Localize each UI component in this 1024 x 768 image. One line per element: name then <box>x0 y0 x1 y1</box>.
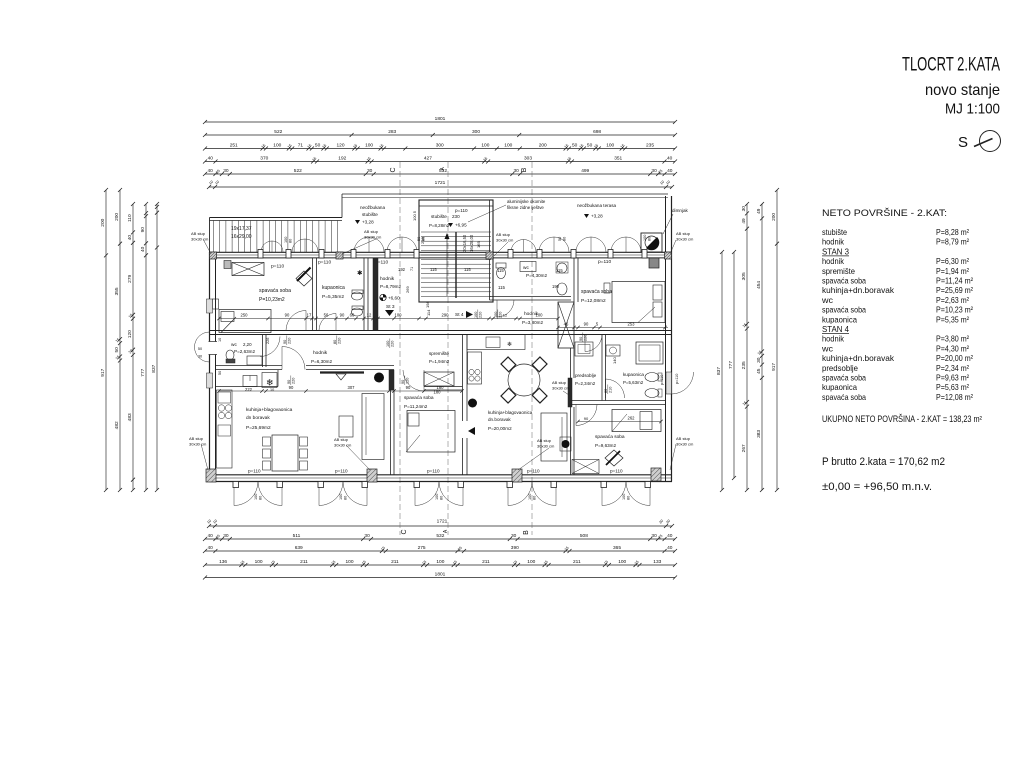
wall kitchen-bedroom solid <box>389 370 394 390</box>
svg-text:+6,95: +6,95 <box>455 223 467 228</box>
svg-text:49: 49 <box>741 218 747 224</box>
svg-text:hodnik: hodnik <box>380 276 395 282</box>
svg-text:210: 210 <box>609 387 613 393</box>
svg-text:dimnjak: dimnjak <box>672 208 689 213</box>
svg-text:300: 300 <box>436 143 444 149</box>
svg-text:P=9,63 m²: P=9,63 m² <box>936 373 969 383</box>
svg-text:508: 508 <box>580 533 588 539</box>
svg-text:100: 100 <box>481 143 489 149</box>
svg-text:B: B <box>523 530 530 535</box>
svg-text:p=110: p=110 <box>527 469 540 474</box>
svg-text:30x30 cm: 30x30 cm <box>496 238 514 243</box>
svg-text:454: 454 <box>756 281 762 289</box>
axis C dashed x400 <box>399 162 401 535</box>
svg-text:AB stup: AB stup <box>364 229 379 234</box>
axis B dashed x532 <box>531 162 533 535</box>
wall wc st4 / stair east <box>489 200 491 300</box>
svg-text:fiksne zidne lještve: fiksne zidne lještve <box>507 205 544 210</box>
svg-text:spremište: spremište <box>429 351 449 356</box>
AB column top-left <box>210 252 217 259</box>
balcony door arcs bottom <box>234 482 258 506</box>
svg-text:P=11,24m2: P=11,24m2 <box>404 404 428 409</box>
wc st3 fixtures <box>226 350 234 360</box>
svg-text:30: 30 <box>651 533 657 539</box>
left dim 837 <box>156 204 158 490</box>
svg-text:250: 250 <box>241 313 249 318</box>
svg-text:p=110: p=110 <box>427 469 440 474</box>
svg-text:novo stanje: novo stanje <box>925 82 1000 99</box>
dim 262 bedroom963 <box>578 421 661 423</box>
svg-text:483: 483 <box>127 413 133 421</box>
svg-text:30x30 cm: 30x30 cm <box>537 444 555 449</box>
svg-text:80: 80 <box>604 389 608 393</box>
svg-text:115: 115 <box>498 285 506 290</box>
svg-text:30: 30 <box>223 533 229 539</box>
svg-text:100 5: 100 5 <box>412 210 417 221</box>
svg-text:spavaća soba: spavaća soba <box>822 392 866 402</box>
spremiste closet X <box>424 372 454 386</box>
svg-text:wc: wc <box>231 343 237 348</box>
svg-text:±0,00 = +96,50 m.n.v.: ±0,00 = +96,50 m.n.v. <box>822 481 932 493</box>
AB column bottom st4 <box>512 469 522 482</box>
svg-text:71: 71 <box>298 143 304 149</box>
svg-text:p=110: p=110 <box>660 375 664 385</box>
svg-text:P=2,34m2: P=2,34m2 <box>575 381 596 386</box>
svg-text:100: 100 <box>435 494 439 500</box>
AB column top mid <box>336 252 343 259</box>
svg-text:17: 17 <box>307 313 312 318</box>
svg-text:P=10,23 m²: P=10,23 m² <box>936 305 973 315</box>
diamond st4 <box>605 450 623 466</box>
chimney dimnjak <box>641 233 662 252</box>
svg-text:AB stup: AB stup <box>334 437 349 442</box>
svg-text:hodnik: hodnik <box>822 237 845 247</box>
svg-text:90: 90 <box>289 385 294 390</box>
svg-text:30: 30 <box>198 355 202 359</box>
svg-text:90: 90 <box>287 380 291 384</box>
svg-text:P=3,80m2: P=3,80m2 <box>522 320 544 325</box>
svg-text:220: 220 <box>288 338 292 344</box>
svg-text:spavaća soba: spavaća soba <box>581 289 612 295</box>
svg-text:UKUPNO NETO POVRŠINA - 2.KAT =: UKUPNO NETO POVRŠINA - 2.KAT = 138,23 m² <box>822 414 982 424</box>
svg-text:100: 100 <box>536 313 544 318</box>
svg-text:p=110: p=110 <box>675 374 679 384</box>
svg-text:279: 279 <box>127 274 133 282</box>
svg-text:spavaća soba: spavaća soba <box>822 373 866 383</box>
svg-text:hodnik: hodnik <box>822 334 845 344</box>
svg-text:511: 511 <box>293 533 301 539</box>
svg-text:P=5,63m2: P=5,63m2 <box>623 380 644 385</box>
svg-text:80: 80 <box>563 237 567 241</box>
svg-text:100: 100 <box>345 559 353 565</box>
svg-text:230: 230 <box>452 214 460 219</box>
svg-text:390: 390 <box>511 545 519 551</box>
left dim 200-917 <box>105 190 107 490</box>
niche wall <box>216 386 278 388</box>
svg-text:p=110: p=110 <box>610 469 623 474</box>
svg-text:300: 300 <box>472 129 480 135</box>
svg-text:wc: wc <box>821 295 834 305</box>
svg-text:917: 917 <box>100 368 106 376</box>
svg-text:253: 253 <box>628 322 636 327</box>
wall exterior left <box>209 252 211 482</box>
svg-text:220: 220 <box>406 378 410 384</box>
svg-text:wc: wc <box>821 343 834 353</box>
svg-text:AB stup: AB stup <box>496 232 511 237</box>
svg-text:30x30 cm: 30x30 cm <box>364 235 382 240</box>
stair divider <box>455 232 457 298</box>
svg-text:P=8,28m2: P=8,28m2 <box>429 223 450 228</box>
svg-text:P=20,00 m²: P=20,00 m² <box>936 353 973 363</box>
svg-text:917: 917 <box>771 363 777 371</box>
right wall window swing arc <box>672 372 694 394</box>
svg-text:115: 115 <box>497 268 504 273</box>
wall solid hodnik west <box>373 258 378 331</box>
svg-text:30: 30 <box>367 168 373 174</box>
svg-text:100: 100 <box>527 559 535 565</box>
right wall window <box>666 372 672 394</box>
svg-text:90: 90 <box>285 313 290 318</box>
svg-text:B: B <box>521 167 528 172</box>
wall top window band <box>210 251 673 253</box>
svg-text:kuhinja+dn.boravak: kuhinja+dn.boravak <box>822 353 895 363</box>
svg-text:220: 220 <box>338 338 342 344</box>
svg-text:100: 100 <box>618 559 626 565</box>
svg-text:aluminijske okomite: aluminijske okomite <box>507 199 546 204</box>
svg-text:133: 133 <box>653 559 661 565</box>
svg-text:AB stup: AB stup <box>676 231 691 236</box>
svg-text:❄: ❄ <box>507 341 512 348</box>
svg-text:100: 100 <box>528 494 532 500</box>
svg-text:100: 100 <box>254 494 258 500</box>
right dim 305-235-267 <box>746 204 748 490</box>
svg-text:p=110: p=110 <box>248 469 261 474</box>
niche counter <box>243 376 257 387</box>
left dim 355-482 <box>119 190 121 490</box>
svg-text:30x30 cm: 30x30 cm <box>552 386 570 391</box>
svg-text:S: S <box>958 134 968 151</box>
svg-text:1721: 1721 <box>437 519 448 525</box>
svg-text:522: 522 <box>294 168 302 174</box>
st4 kitchen top counter <box>467 335 525 350</box>
svg-text:45: 45 <box>756 368 762 374</box>
svg-text:P=8,79 m²: P=8,79 m² <box>936 237 969 247</box>
svg-text:532: 532 <box>436 533 444 539</box>
svg-text:+6,60: +6,60 <box>388 296 400 301</box>
wall bedroom st4 west <box>573 258 575 302</box>
svg-text:p=110: p=110 <box>598 259 611 265</box>
svg-text:100: 100 <box>622 494 626 500</box>
wall predsoblje-kupaonica st4 <box>601 335 603 401</box>
svg-text:2,20: 2,20 <box>243 342 252 347</box>
svg-text:30: 30 <box>756 357 762 363</box>
wc st4 door arc <box>497 300 514 317</box>
svg-text:P=25,69 m²: P=25,69 m² <box>936 285 973 295</box>
svg-text:427: 427 <box>424 156 432 162</box>
wall st4 kitchen west <box>462 335 464 422</box>
svg-text:kupaonica: kupaonica <box>623 372 644 377</box>
svg-text:49: 49 <box>756 208 762 214</box>
left wall door gap <box>208 342 217 355</box>
svg-text:80: 80 <box>289 239 293 243</box>
svg-text:50: 50 <box>417 237 421 241</box>
wall kupaonica east <box>363 258 365 331</box>
svg-text:16x29,00: 16x29,00 <box>231 234 252 240</box>
left dim 279-120-483 <box>132 204 134 490</box>
dim row 1721 top <box>209 186 672 188</box>
svg-text:267: 267 <box>741 444 747 452</box>
dim row 522-532-499 <box>205 173 675 175</box>
svg-text:283: 283 <box>388 129 396 135</box>
svg-text:100: 100 <box>504 143 512 149</box>
svg-text:100: 100 <box>339 494 343 500</box>
terrace parapet top <box>342 193 668 195</box>
svg-text:220: 220 <box>479 312 483 318</box>
svg-text:hodnik: hodnik <box>822 256 845 266</box>
dim row 639-275-390-365 <box>205 550 675 552</box>
svg-text:40: 40 <box>140 246 146 252</box>
wall shaft-south to st4 <box>570 348 572 378</box>
bed spavaca 9,63 <box>612 410 661 432</box>
svg-text:STAN 3: STAN 3 <box>822 246 849 256</box>
diamond decor room1 <box>296 271 312 286</box>
svg-text:AB stup: AB stup <box>552 380 567 385</box>
svg-text:50: 50 <box>558 237 562 241</box>
right dim 777 <box>733 252 735 478</box>
svg-text:165: 165 <box>476 241 481 248</box>
svg-text:50: 50 <box>198 347 202 351</box>
svg-text:80: 80 <box>440 496 444 500</box>
svg-text:P=4,30m2: P=4,30m2 <box>526 273 548 278</box>
svg-text:P=20,00m2: P=20,00m2 <box>488 426 512 431</box>
bed room1 <box>219 310 271 333</box>
window posts top <box>258 250 263 259</box>
svg-text:30x30 cm: 30x30 cm <box>676 442 694 447</box>
dim row 522-283-300-698 <box>205 134 675 136</box>
svg-text:90: 90 <box>401 380 405 384</box>
svg-text:AB stup: AB stup <box>676 436 691 441</box>
svg-text:40: 40 <box>667 533 673 539</box>
svg-text:192: 192 <box>398 267 406 272</box>
svg-text:kuhinja+blagovaonica: kuhinja+blagovaonica <box>488 410 533 415</box>
svg-text:P=2,34 m²: P=2,34 m² <box>936 363 969 373</box>
svg-text:305: 305 <box>741 272 747 280</box>
svg-text:115: 115 <box>430 267 437 272</box>
svg-text:269: 269 <box>405 286 410 293</box>
svg-text:20x16,50: 20x16,50 <box>462 234 467 252</box>
svg-text:136: 136 <box>219 559 227 565</box>
svg-text:30: 30 <box>651 168 657 174</box>
svg-text:80: 80 <box>422 237 426 241</box>
wall exterior bottom with sill <box>210 474 673 476</box>
st4 sink counter <box>560 437 571 451</box>
svg-text:St 4: St 4 <box>455 312 464 318</box>
svg-text:275: 275 <box>418 545 426 551</box>
svg-text:kuhinja+blagovaonica: kuhinja+blagovaonica <box>246 407 293 413</box>
svg-text:211: 211 <box>391 559 399 565</box>
svg-text:MJ 1:100: MJ 1:100 <box>945 101 1000 118</box>
svg-text:220: 220 <box>292 378 296 384</box>
AB column bottom kitchen <box>367 469 377 482</box>
svg-text:spavaća soba: spavaća soba <box>822 305 866 315</box>
svg-text:P=25,69m2: P=25,69m2 <box>246 425 271 431</box>
svg-text:522: 522 <box>274 129 282 135</box>
svg-text:1801: 1801 <box>435 572 446 578</box>
svg-text:stubište: stubište <box>362 212 378 217</box>
sofa st4 <box>541 413 567 461</box>
TV unit <box>320 371 364 373</box>
svg-text:P=6,30m2: P=6,30m2 <box>311 359 333 364</box>
svg-text:90: 90 <box>140 227 146 233</box>
wall wc st4 south <box>490 296 572 298</box>
svg-text:p=110: p=110 <box>271 264 284 270</box>
svg-text:kuhinja+dn.boravak: kuhinja+dn.boravak <box>822 285 895 295</box>
svg-text:198: 198 <box>425 301 430 308</box>
svg-text:115: 115 <box>464 267 471 272</box>
svg-text:P=10,23m2: P=10,23m2 <box>259 297 285 303</box>
svg-text:114: 114 <box>426 309 431 316</box>
wc st4 fixtures <box>497 268 506 279</box>
AB column bottom right <box>651 468 661 481</box>
dim row 511-532-508 <box>205 538 675 540</box>
svg-text:30x30 cm: 30x30 cm <box>334 443 352 448</box>
svg-text:307: 307 <box>348 385 356 390</box>
svg-text:STAN 4: STAN 4 <box>822 324 849 334</box>
svg-text:90: 90 <box>584 416 589 421</box>
wall st4 south band <box>571 400 666 402</box>
svg-text:+3,28: +3,28 <box>362 220 374 225</box>
svg-text:482: 482 <box>114 421 120 429</box>
svg-text:40: 40 <box>208 545 214 551</box>
kitchen st3 counters <box>217 390 233 468</box>
shaft with X <box>558 302 574 348</box>
svg-text:211: 211 <box>300 559 308 565</box>
svg-text:P=12,08m2: P=12,08m2 <box>581 298 606 304</box>
svg-text:100: 100 <box>255 559 263 565</box>
svg-text:220: 220 <box>391 341 395 347</box>
svg-text:P=1,94 m²: P=1,94 m² <box>936 266 969 276</box>
svg-text:P=4,30 m²: P=4,30 m² <box>936 343 969 353</box>
svg-text:C: C <box>401 529 408 534</box>
svg-text:40: 40 <box>667 545 673 551</box>
svg-text:+3,28: +3,28 <box>591 214 603 219</box>
svg-text:100: 100 <box>386 341 390 347</box>
svg-text:251: 251 <box>230 143 238 149</box>
svg-text:100: 100 <box>474 312 478 318</box>
left wall window gray bands <box>207 299 213 313</box>
svg-text:46: 46 <box>564 322 569 327</box>
AB column top-right <box>665 252 672 259</box>
svg-text:16x28,00: 16x28,00 <box>469 234 474 252</box>
svg-text:P brutto 2.kata = 170,62 m2: P brutto 2.kata = 170,62 m2 <box>822 456 945 468</box>
svg-text:100: 100 <box>365 143 373 149</box>
svg-text:100: 100 <box>395 313 403 318</box>
svg-text:30: 30 <box>223 168 229 174</box>
svg-text:12: 12 <box>503 313 508 318</box>
svg-text:spavaća soba: spavaća soba <box>822 276 866 286</box>
svg-text:837: 837 <box>151 364 157 372</box>
svg-text:80: 80 <box>259 496 263 500</box>
svg-text:kupaonica: kupaonica <box>322 285 345 291</box>
svg-text:262: 262 <box>628 416 636 421</box>
svg-text:90: 90 <box>579 337 583 341</box>
wall exterior right <box>665 196 667 482</box>
door arcs interior <box>286 311 306 331</box>
svg-text:120: 120 <box>336 143 344 149</box>
svg-text:50: 50 <box>218 371 222 375</box>
bed st4 top right <box>612 282 665 323</box>
svg-text:50: 50 <box>587 143 593 149</box>
svg-text:235: 235 <box>741 361 747 369</box>
svg-text:P=8,79m2: P=8,79m2 <box>380 284 402 289</box>
svg-text:❄: ❄ <box>266 378 274 388</box>
svg-text:110: 110 <box>127 214 133 222</box>
svg-text:P=12,08 m²: P=12,08 m² <box>936 392 973 402</box>
AB column bottom-left <box>206 469 216 482</box>
svg-text:50: 50 <box>315 143 321 149</box>
svg-text:spavaća soba: spavaća soba <box>259 288 291 294</box>
svg-text:115: 115 <box>556 268 563 273</box>
svg-text:stubište: stubište <box>822 227 847 237</box>
svg-text:60: 60 <box>350 313 355 318</box>
svg-text:P=1,94m2: P=1,94m2 <box>429 359 450 364</box>
bed spavaca 11,24 <box>407 411 455 453</box>
dim row total 1801 bottom <box>205 577 675 579</box>
svg-text:p=110: p=110 <box>335 469 348 474</box>
svg-text:C: C <box>390 167 397 172</box>
svg-text:56: 56 <box>324 313 329 318</box>
svg-text:kupaonica: kupaonica <box>822 382 857 392</box>
svg-text:226: 226 <box>266 338 270 344</box>
kupaonica st3 fixtures <box>352 292 363 300</box>
upper dim string st4 segment <box>493 318 558 320</box>
svg-text:100: 100 <box>606 143 614 149</box>
wardrobe X room1 <box>232 263 264 276</box>
svg-text:19x17,37: 19x17,37 <box>231 226 252 232</box>
left dim 777 <box>145 204 147 490</box>
svg-text:30x30 cm: 30x30 cm <box>189 442 207 447</box>
svg-text:30: 30 <box>364 533 370 539</box>
svg-text:80: 80 <box>533 496 537 500</box>
svg-text:12: 12 <box>367 313 372 318</box>
svg-text:698: 698 <box>593 129 601 135</box>
svg-text:kupaonica: kupaonica <box>822 314 857 324</box>
svg-text:90: 90 <box>584 322 589 327</box>
svg-text:100: 100 <box>643 235 647 241</box>
svg-text:30: 30 <box>514 168 520 174</box>
svg-text:P=9,63m2: P=9,63m2 <box>595 443 617 448</box>
svg-text:777: 777 <box>140 368 146 376</box>
svg-text:P=8,28 m²: P=8,28 m² <box>936 227 969 237</box>
svg-text:30: 30 <box>511 533 517 539</box>
svg-text:120: 120 <box>127 330 133 338</box>
svg-text:383: 383 <box>756 430 762 438</box>
dim row fine bottom <box>205 564 675 566</box>
svg-text:80: 80 <box>333 340 337 344</box>
svg-text:837: 837 <box>716 367 722 375</box>
svg-text:365: 365 <box>613 545 621 551</box>
svg-text:100: 100 <box>273 143 281 149</box>
svg-text:30: 30 <box>741 206 747 212</box>
svg-text:200: 200 <box>771 213 777 221</box>
terrace top-left stairs hatched <box>210 217 343 219</box>
svg-text:40: 40 <box>208 156 214 162</box>
dim row 370-192-427-303-351 <box>205 161 675 163</box>
svg-text:1801: 1801 <box>435 116 446 122</box>
st4 stove column <box>468 352 482 384</box>
wardrobe X st4 <box>572 460 599 474</box>
svg-text:1721: 1721 <box>435 180 446 186</box>
